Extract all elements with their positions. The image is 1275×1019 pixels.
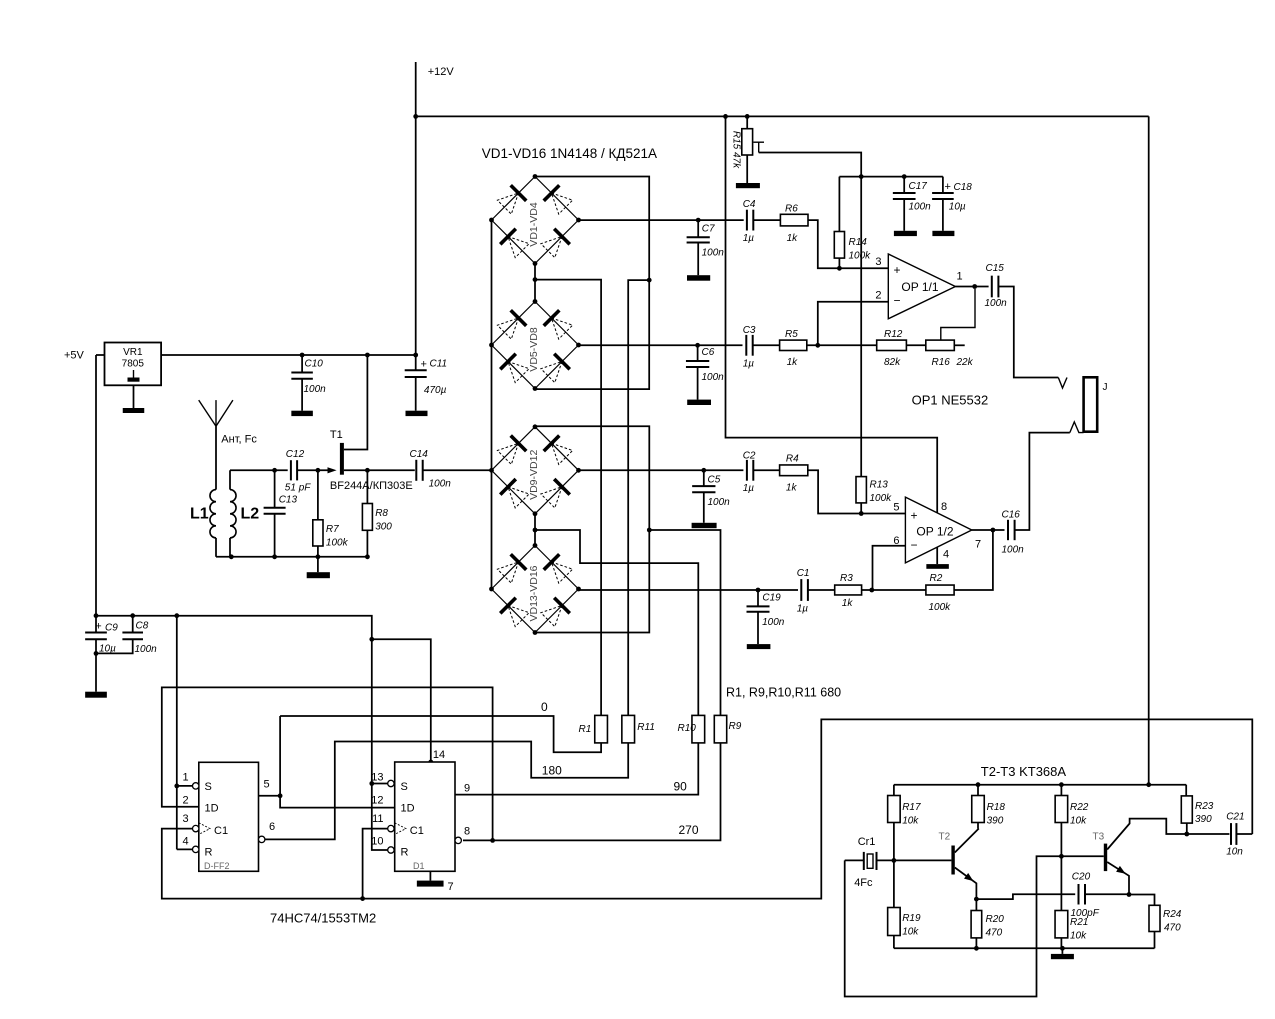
wire ring1-ring2 junction to 0 bus	[534, 264, 536, 302]
wire op1 output	[955, 286, 988, 288]
wire +12V to op pin8	[726, 116, 938, 513]
svg-text:5: 5	[893, 502, 899, 514]
wire C12 to T1 gate	[297, 469, 327, 471]
svg-text:100k: 100k	[326, 538, 349, 549]
svg-text:R8: R8	[375, 508, 388, 519]
op-amp OP 1/2	[905, 497, 971, 563]
wire R5 to R12	[807, 344, 877, 346]
svg-text:3: 3	[182, 813, 188, 825]
wire mixer left bus	[491, 220, 493, 589]
resistor R10 680	[692, 715, 705, 743]
svg-text:1k: 1k	[842, 598, 854, 609]
diode ring VD13-VD16	[492, 546, 536, 590]
svg-text:C1: C1	[410, 825, 424, 837]
wire T1 drain	[344, 355, 368, 450]
resistor R21 10k	[1060, 856, 1062, 910]
svg-text:C1: C1	[797, 568, 810, 579]
capacitor C12 51pF	[290, 460, 292, 480]
wire op1 pin2	[818, 302, 889, 346]
wire +5V to FF1 S,R	[176, 616, 178, 850]
wire R15 wiper	[753, 141, 764, 143]
resistor R20 470	[974, 897, 979, 902]
svg-text:BF244A/КП303Е: BF244A/КП303Е	[330, 480, 413, 492]
resistor R2 100k	[926, 585, 954, 595]
svg-text:C3: C3	[743, 325, 756, 336]
svg-text:C17: C17	[909, 181, 928, 192]
svg-text:11: 11	[372, 813, 383, 825]
resistor R3 1k	[808, 589, 835, 591]
svg-text:5: 5	[264, 779, 270, 791]
jack contact upper	[1058, 378, 1067, 389]
svg-text:6: 6	[269, 821, 275, 833]
svg-text:OP1 NE5532: OP1 NE5532	[912, 393, 989, 408]
svg-text:100n: 100n	[1002, 545, 1025, 556]
svg-text:R24: R24	[1163, 909, 1182, 920]
svg-text:1D: 1D	[401, 803, 415, 815]
flip-flop D1	[395, 762, 455, 871]
resistor R1 680	[595, 715, 608, 743]
svg-text:C14: C14	[410, 449, 429, 460]
wire oscillator ground rail	[894, 947, 1155, 949]
svg-text:470: 470	[1164, 923, 1181, 934]
wire R2 to output	[954, 530, 993, 590]
svg-text:90: 90	[674, 780, 688, 794]
svg-text:390: 390	[987, 816, 1004, 827]
svg-text:VD1-VD4: VD1-VD4	[528, 202, 540, 247]
svg-text:R23: R23	[1195, 801, 1214, 812]
svg-text:100k: 100k	[849, 251, 872, 262]
capacitor C4 1u	[746, 210, 748, 231]
svg-text:S: S	[205, 781, 212, 793]
svg-text:−: −	[911, 538, 918, 552]
svg-text:100k: 100k	[929, 602, 952, 613]
svg-text:+: +	[911, 509, 918, 523]
ground op2 pin4	[936, 547, 938, 564]
svg-text:100k: 100k	[870, 493, 893, 504]
resistor R4 1k	[753, 469, 779, 471]
svg-text:R14: R14	[849, 237, 868, 248]
resistor R15 47k trimmer	[746, 116, 748, 128]
svg-text:L2: L2	[241, 506, 260, 523]
svg-text:100n: 100n	[135, 644, 158, 655]
svg-text:300: 300	[375, 522, 392, 533]
resistor R13 100k	[856, 477, 866, 503]
wire FF1 Q to 0 and FF2 D	[259, 795, 281, 797]
svg-text:100n: 100n	[762, 617, 785, 628]
wire ring3 top to ring4 bottom / 90 bus	[535, 426, 649, 632]
svg-text:+: +	[95, 621, 101, 633]
resistor R17 10k	[893, 785, 895, 796]
wire phase 180	[265, 742, 628, 840]
wire C15 to jack tip	[998, 287, 1058, 378]
ground FF2 pin7	[429, 871, 431, 880]
wire C14 to mixer bus	[423, 469, 492, 471]
flip-flop D-FF2	[199, 762, 259, 871]
svg-text:51 pF: 51 pF	[285, 483, 311, 494]
svg-text:R13: R13	[870, 480, 889, 491]
svg-text:C8: C8	[136, 621, 149, 632]
svg-text:VD9-VD12: VD9-VD12	[528, 450, 540, 500]
wire ring3 right output	[579, 469, 744, 471]
wire op2 output	[972, 529, 1005, 531]
svg-text:R4: R4	[786, 454, 799, 465]
svg-text:3: 3	[875, 256, 881, 268]
ground oscillator	[1061, 948, 1063, 954]
svg-text:100n: 100n	[708, 497, 731, 508]
capacitor C8 100n	[132, 616, 134, 633]
capacitor C1 1u	[800, 579, 802, 601]
wire +5V distribution	[96, 616, 388, 850]
wire C16 to jack sleeve	[1015, 433, 1070, 530]
capacitor C7 100n	[696, 218, 701, 223]
wire ring1 top to 180 bus	[535, 177, 649, 390]
jack contact lower	[1070, 422, 1084, 433]
svg-text:T3: T3	[1093, 832, 1105, 843]
wire T3 base node	[1059, 854, 1064, 859]
resistor R14 100k	[838, 177, 840, 232]
svg-text:R15 47k: R15 47k	[731, 131, 742, 169]
svg-text:VD5-VD8: VD5-VD8	[528, 327, 540, 372]
svg-text:8: 8	[464, 826, 470, 838]
svg-text:14: 14	[433, 749, 445, 761]
resistor R24 470	[1129, 895, 1155, 906]
resistor R7 100k	[317, 470, 319, 520]
svg-text:4: 4	[943, 549, 949, 561]
svg-text:C5: C5	[708, 475, 721, 486]
capacitor C16 100n	[1007, 520, 1009, 540]
svg-text:C11: C11	[430, 359, 448, 370]
capacitor C5 100n	[701, 468, 706, 473]
svg-text:VD13-VD16: VD13-VD16	[528, 565, 540, 621]
diode ring VD1-VD4	[492, 177, 536, 221]
svg-text:10k: 10k	[1070, 931, 1087, 942]
wire +12V vertical	[415, 62, 417, 355]
ground R15	[736, 183, 760, 188]
svg-text:7805: 7805	[122, 359, 145, 370]
svg-text:10n: 10n	[1226, 847, 1243, 858]
svg-text:10k: 10k	[902, 816, 919, 827]
svg-text:82k: 82k	[884, 357, 901, 368]
wire bias vertical to R13	[860, 177, 862, 477]
wire pin14 supply	[372, 639, 431, 762]
wire VR1 left to +5V	[96, 354, 105, 356]
diode ring VD9-VD12	[492, 427, 536, 471]
svg-text:C18: C18	[954, 182, 973, 193]
inductor L2	[230, 490, 236, 538]
svg-text:C16: C16	[1002, 510, 1021, 521]
svg-text:10k: 10k	[902, 927, 919, 938]
wire T1 source to C14	[344, 469, 415, 471]
svg-text:7: 7	[448, 881, 454, 893]
ground C17	[894, 231, 917, 236]
svg-text:+: +	[421, 359, 427, 371]
wire ring4 right output	[579, 589, 799, 591]
resistor R5 1k	[753, 344, 780, 346]
svg-text:1k: 1k	[786, 483, 798, 494]
svg-text:74HC74/1553ТМ2: 74HC74/1553ТМ2	[270, 911, 376, 926]
svg-text:12: 12	[371, 795, 383, 807]
svg-text:R11: R11	[637, 722, 655, 733]
svg-text:C9: C9	[105, 623, 118, 634]
svg-text:T2: T2	[939, 832, 951, 843]
svg-text:2: 2	[182, 795, 188, 807]
svg-text:9: 9	[464, 783, 470, 795]
svg-text:R20: R20	[986, 914, 1005, 925]
svg-text:10k: 10k	[1070, 816, 1087, 827]
svg-text:R: R	[205, 847, 213, 859]
svg-text:+: +	[945, 181, 951, 193]
svg-text:7: 7	[975, 539, 981, 551]
svg-text:R22: R22	[1070, 802, 1089, 813]
capacitor C3 1u	[745, 335, 747, 356]
svg-text:+12V: +12V	[428, 66, 455, 78]
svg-text:C19: C19	[762, 593, 781, 604]
svg-text:100n: 100n	[429, 479, 452, 490]
resistor R19 10k	[893, 860, 895, 907]
svg-text:100n: 100n	[304, 384, 327, 395]
capacitor C17 100n	[903, 177, 905, 193]
svg-text:22k: 22k	[956, 357, 974, 368]
wire crystal loop	[845, 856, 1062, 996]
ground VR1	[133, 385, 135, 408]
svg-text:R7: R7	[326, 524, 339, 535]
capacitor C18 10u	[942, 177, 944, 193]
wire R4 to op2 pin5 node	[808, 470, 906, 513]
svg-text:D-FF2: D-FF2	[204, 861, 230, 871]
svg-text:470µ: 470µ	[424, 385, 447, 396]
svg-text:L1: L1	[190, 506, 209, 523]
jack J	[1084, 377, 1098, 431]
wire +12V top rail	[416, 115, 1149, 117]
svg-text:D1: D1	[413, 861, 425, 871]
diode ring VD5-VD8	[492, 302, 536, 346]
inductor L1	[210, 490, 216, 538]
ground C19	[747, 644, 771, 649]
svg-text:0: 0	[541, 700, 548, 714]
capacitor C9 10u	[95, 616, 97, 633]
ground C10	[291, 411, 313, 416]
svg-text:10µ: 10µ	[949, 202, 966, 213]
wire T2 base node	[892, 858, 897, 863]
svg-text:1µ: 1µ	[743, 359, 755, 370]
svg-text:C12: C12	[286, 449, 305, 460]
svg-text:C2: C2	[743, 451, 756, 462]
regulator VR1 7805	[105, 343, 162, 386]
svg-text:Ант, Fc: Ант, Fc	[221, 434, 257, 446]
svg-text:S: S	[401, 781, 408, 793]
resistor R9 680	[714, 715, 726, 743]
svg-text:OP 1/2: OP 1/2	[916, 525, 953, 539]
wire phase 0	[280, 716, 601, 752]
wire FF1 D feedback	[162, 687, 493, 840]
svg-text:180: 180	[542, 764, 562, 778]
svg-text:390: 390	[1195, 814, 1212, 825]
svg-text:C15: C15	[986, 263, 1005, 274]
svg-text:R18: R18	[987, 802, 1006, 813]
svg-text:C6: C6	[702, 347, 715, 358]
svg-text:1k: 1k	[787, 233, 799, 244]
capacitor C10 100n	[301, 355, 303, 373]
svg-text:1µ: 1µ	[797, 604, 809, 615]
svg-text:C7: C7	[702, 224, 715, 235]
wire right frame from rail to oscillator	[1148, 116, 1150, 784]
resistor R23 390	[1185, 785, 1187, 796]
capacitor C14 100n	[415, 460, 417, 481]
wire R16 wiper to output	[941, 289, 975, 340]
svg-text:1: 1	[957, 271, 963, 283]
capacitor C6 100n	[695, 343, 700, 348]
svg-text:T2-T3 KT368A: T2-T3 KT368A	[981, 764, 1067, 779]
wire phase 270	[463, 743, 721, 841]
wire clock line	[162, 719, 1253, 898]
svg-text:R12: R12	[884, 329, 903, 340]
svg-text:R9: R9	[729, 721, 742, 732]
svg-text:C20: C20	[1072, 872, 1091, 883]
svg-text:R10: R10	[678, 723, 697, 734]
capacitor C19 100n	[756, 588, 761, 593]
svg-text:1k: 1k	[787, 357, 799, 368]
svg-text:270: 270	[679, 823, 699, 837]
svg-text:OP 1/1: OP 1/1	[901, 280, 938, 294]
svg-text:+: +	[894, 263, 901, 277]
svg-text:4Fc: 4Fc	[854, 877, 873, 889]
svg-text:R: R	[401, 847, 409, 859]
svg-text:R6: R6	[785, 204, 798, 215]
resistor R22 10k	[1060, 785, 1062, 796]
capacitor C15 100n	[991, 276, 993, 298]
ground rail input	[216, 556, 367, 558]
wire R6 to op-amp pin3 node	[808, 220, 888, 268]
wire op2 pin6	[873, 546, 906, 591]
svg-text:R16: R16	[932, 357, 951, 368]
svg-text:470: 470	[986, 928, 1003, 939]
resistor R11 680	[622, 715, 635, 743]
svg-text:8: 8	[941, 501, 947, 513]
svg-text:100n: 100n	[985, 298, 1008, 309]
resistor R16 22k trimmer	[906, 344, 925, 346]
ground C18	[932, 231, 954, 236]
svg-text:R19: R19	[902, 913, 921, 924]
svg-text:Cr1: Cr1	[858, 836, 876, 848]
svg-text:R17: R17	[902, 802, 921, 813]
svg-text:VD1-VD16 1N4148 / КД521А: VD1-VD16 1N4148 / КД521А	[482, 146, 657, 161]
wire T2 emitter to C20	[976, 894, 1075, 899]
svg-text:R1: R1	[579, 724, 592, 735]
wire oscillator +12V rail	[894, 784, 1186, 786]
svg-text:13: 13	[371, 772, 383, 784]
svg-text:T1: T1	[330, 429, 343, 441]
svg-text:R5: R5	[785, 329, 798, 340]
ground C7	[687, 275, 710, 281]
svg-text:4: 4	[182, 836, 188, 848]
capacitor C11 470u	[415, 355, 417, 370]
wire ring1 right output	[579, 219, 744, 221]
capacitor C2 1u	[746, 460, 748, 481]
wire clock to FF2	[363, 829, 388, 899]
svg-text:R21: R21	[1070, 917, 1088, 928]
wire ring2 right output	[579, 344, 743, 346]
svg-text:100n: 100n	[702, 372, 725, 383]
wire bias rail	[839, 176, 943, 178]
capacitor C21 10n	[1187, 833, 1230, 835]
svg-text:C13: C13	[279, 495, 298, 506]
resistor R18 390	[977, 785, 979, 796]
ground C11	[406, 411, 428, 416]
svg-text:R2: R2	[930, 573, 943, 584]
svg-text:C1: C1	[214, 825, 228, 837]
wire ring3-ring4 junction to 270 bus	[534, 514, 536, 546]
svg-text:1µ: 1µ	[743, 233, 755, 244]
svg-text:−: −	[894, 294, 901, 308]
svg-text:1: 1	[182, 772, 188, 784]
ground C5	[692, 523, 717, 528]
svg-text:R1, R9,R10,R11 680: R1, R9,R10,R11 680	[726, 686, 841, 700]
svg-text:C21: C21	[1226, 812, 1244, 823]
ground C6	[687, 400, 711, 405]
resistor R8 300	[366, 470, 368, 503]
svg-text:VR1: VR1	[123, 347, 143, 358]
svg-text:C10: C10	[305, 359, 324, 370]
resistor R6 1k	[753, 219, 780, 221]
wire VR1 output rail	[161, 354, 416, 356]
svg-text:+5V: +5V	[64, 350, 85, 362]
svg-text:100n: 100n	[702, 248, 725, 259]
wire R3 to R2	[862, 589, 926, 591]
ground C9	[85, 692, 107, 698]
antenna Ant,Fc	[199, 400, 216, 426]
op-amp OP 1/1	[888, 254, 955, 319]
svg-text:100n: 100n	[909, 202, 932, 213]
svg-text:2: 2	[875, 290, 881, 302]
svg-text:1µ: 1µ	[743, 483, 755, 494]
svg-text:1D: 1D	[205, 803, 219, 815]
svg-text:C4: C4	[743, 199, 756, 210]
svg-text:10: 10	[371, 836, 383, 848]
capacitor C20 100pF	[1078, 884, 1080, 905]
wire L2 to C12	[230, 469, 288, 471]
wire phase 90	[455, 743, 698, 795]
resistor R12 82k	[877, 340, 907, 350]
capacitor C13	[274, 470, 276, 508]
svg-text:J: J	[1103, 382, 1108, 393]
svg-text:R3: R3	[840, 573, 853, 584]
wire 180 bus down	[628, 280, 649, 715]
